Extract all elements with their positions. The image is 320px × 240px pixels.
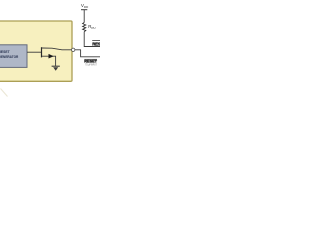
ground symbol — [52, 66, 60, 71]
wire: reset generator output to transistor base — [27, 51, 41, 53]
svg-text:PU: PU — [92, 26, 96, 30]
transistor Q1 emitter wire — [42, 56, 56, 66]
wire: pin to step corner — [75, 50, 100, 57]
transistor Q1 emitter arrowhead — [49, 54, 54, 59]
pin circle (RESET output pad) — [72, 48, 75, 51]
transistor Q1 base bar — [41, 47, 42, 57]
IC body (chip outline) — [0, 21, 72, 81]
node label RESET (lower wire, bold) — [84, 59, 97, 64]
VDD terminal tick — [81, 9, 87, 11]
svg-text:DD: DD — [84, 5, 88, 9]
svg-text:RESET: RESET — [92, 41, 100, 46]
node label RESET (upper, to µP) — [92, 41, 106, 47]
reset generator block U1 — [0, 45, 27, 68]
svg-text:TO µP INPUT: TO µP INPUT — [85, 63, 97, 67]
wire: resistor down to corner — [84, 32, 100, 47]
background — [0, 0, 100, 100]
faint streak artifact bottom-left — [1, 89, 8, 97]
resistor RPU zigzag — [83, 23, 86, 32]
transistor Q1 collector wire to pin — [42, 48, 71, 50]
svg-text:GENERATOR: GENERATOR — [0, 54, 18, 59]
wire: VDD down to resistor — [83, 10, 85, 23]
